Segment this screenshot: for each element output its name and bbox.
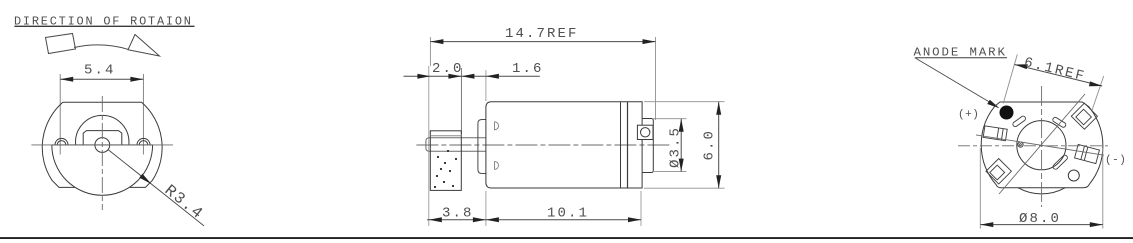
tab bottom-left	[986, 159, 1011, 184]
dim 6.1REF	[1003, 54, 1103, 110]
anode mark dot	[1000, 106, 1014, 120]
svg-text:6.1REF: 6.1REF	[1022, 55, 1087, 86]
leader R3.4	[108, 150, 207, 226]
svg-text:14.7REF: 14.7REF	[505, 26, 579, 42]
weight chord line	[52, 144, 153, 146]
dim 14.7REF	[430, 26, 655, 120]
left boss	[55, 138, 68, 145]
dim Ø3.5	[652, 119, 687, 172]
inner cap circle	[1017, 121, 1066, 170]
dim Ø8.0	[980, 148, 1103, 229]
vertical centerline	[101, 96, 103, 210]
svg-text:(-): (-)	[1105, 155, 1126, 167]
title: DIRECTION OF ROTAION	[14, 14, 195, 28]
magnet clip bottom	[495, 161, 499, 169]
centerline horizontal	[958, 145, 1108, 147]
slot top-right	[1052, 116, 1067, 128]
tab right	[1075, 144, 1100, 163]
centerline tab axis	[976, 135, 1104, 155]
shaft	[426, 138, 486, 152]
dims 3.8 and 10.1	[427, 191, 641, 226]
svg-text:10.1: 10.1	[547, 206, 589, 222]
svg-text:Ø3.5: Ø3.5	[668, 126, 684, 168]
eccentric weight	[430, 131, 461, 191]
pin circle	[1018, 142, 1023, 147]
dim 5.4	[60, 63, 143, 155]
rotation arrow symbol	[46, 34, 160, 57]
dim 6.0	[644, 102, 725, 189]
svg-text:Ø8.0: Ø8.0	[1019, 211, 1061, 227]
magnet clip top	[495, 122, 499, 130]
can seam lines	[620, 102, 622, 188]
svg-text:5.4: 5.4	[84, 63, 116, 79]
motor body outline (front view)	[42, 102, 162, 187]
end cap	[642, 119, 653, 173]
inner bearing arc	[76, 115, 129, 145]
axis centerline	[416, 144, 670, 146]
eccentric weight half-disc	[52, 145, 153, 195]
slot bottom	[1052, 154, 1068, 170]
horizontal centerline	[31, 144, 173, 146]
weight arc behind	[1018, 188, 1065, 194]
left bearing boss	[478, 120, 486, 174]
svg-text:(+): (+)	[958, 109, 979, 121]
centerline vertical	[1041, 86, 1043, 207]
terminal circle	[641, 128, 650, 137]
svg-text:3.8: 3.8	[442, 206, 474, 222]
svg-text:R3.4: R3.4	[161, 181, 207, 223]
shaft circle	[95, 138, 110, 153]
motor body (side view)	[486, 102, 642, 188]
dims 2.0 and 1.6	[404, 61, 544, 226]
slot top-left	[1012, 115, 1026, 127]
tab top-right	[1071, 103, 1097, 129]
tab left	[983, 126, 1007, 141]
weight speckles	[434, 150, 457, 188]
right boss	[137, 138, 150, 145]
bottom border	[0, 237, 1133, 239]
svg-text:1.6: 1.6	[512, 61, 544, 77]
centerline diagonal	[999, 94, 1085, 194]
terminal box	[637, 125, 653, 139]
svg-text:2.0: 2.0	[432, 61, 464, 77]
label ANODE MARK	[914, 46, 1008, 109]
small hole circle	[1068, 170, 1079, 181]
cap outline (rear view)	[981, 102, 1103, 188]
svg-text:6.0: 6.0	[702, 129, 718, 161]
keyway hat	[83, 131, 122, 145]
